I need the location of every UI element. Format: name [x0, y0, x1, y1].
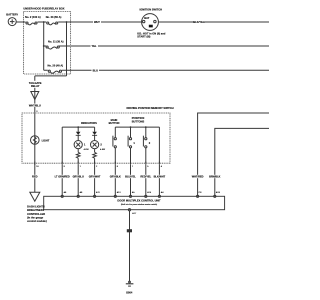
svg-text:IG1: HOT in ON (II) and: IG1: HOT in ON (II) and — [137, 31, 166, 35]
svg-text:G504: G504 — [126, 290, 133, 294]
svg-text:RED/YEL: RED/YEL — [140, 176, 151, 179]
svg-text:RELAY: RELAY — [31, 84, 40, 88]
svg-text:DASH LIGHTS: DASH LIGHTS — [27, 204, 45, 208]
svg-text:START (III): START (III) — [137, 35, 150, 39]
svg-text:DRIVING POSITION MEMORY SWITCH: DRIVING POSITION MEMORY SWITCH — [127, 106, 174, 110]
svg-text:No. 20 (40 A): No. 20 (40 A) — [48, 64, 64, 68]
svg-text:GRY/WHT: GRY/WHT — [89, 176, 101, 179]
svg-text:BUTTONS: BUTTONS — [132, 119, 145, 123]
svg-text:No. 11 (30 A): No. 11 (30 A) — [48, 39, 64, 43]
svg-text:(In the gauge: (In the gauge — [27, 216, 44, 220]
svg-text:BLK/WHT: BLK/WHT — [154, 176, 166, 179]
svg-text:RED: RED — [32, 175, 38, 179]
svg-text:UNDER-HOOD FUSE/RELAY BOX: UNDER-HOOD FUSE/RELAY BOX — [23, 6, 64, 10]
svg-text:LT GRN/RED: LT GRN/RED — [55, 176, 70, 179]
svg-text:BLU: BLU — [93, 68, 98, 72]
svg-text:DOOR MULTIPLEX CONTROL UNIT: DOOR MULTIPLEX CONTROL UNIT — [117, 198, 161, 202]
svg-text:BRN/BLK: BRN/BLK — [209, 176, 220, 179]
svg-text:BLK/YEL: BLK/YEL — [193, 20, 205, 24]
svg-text:YEL: YEL — [91, 44, 96, 48]
svg-text:BUTTON: BUTTON — [109, 121, 120, 125]
svg-text:No. 23 (50 A): No. 23 (50 A) — [46, 15, 62, 19]
svg-text:LIGHT: LIGHT — [42, 138, 50, 142]
svg-text:(Built into the power window m: (Built into the power window master swit… — [121, 203, 158, 206]
svg-text:CONTROLLER: CONTROLLER — [27, 212, 45, 216]
svg-text:BAT: BAT — [144, 16, 150, 20]
svg-text:control module): control module) — [27, 219, 47, 223]
svg-text:IGNITION SWITCH: IGNITION SWITCH — [140, 8, 163, 12]
svg-text:WHT/BLU: WHT/BLU — [29, 104, 41, 108]
svg-text:BRIGHTNESS: BRIGHTNESS — [27, 208, 44, 212]
svg-text:WHT/RED: WHT/RED — [192, 176, 204, 179]
svg-text:BLU/YEL: BLU/YEL — [125, 176, 136, 179]
svg-text:GRY/BLU: GRY/BLU — [73, 176, 84, 179]
svg-text:GRY/BLK: GRY/BLK — [110, 176, 121, 179]
svg-text:No. 2 (100 A): No. 2 (100 A) — [25, 15, 41, 19]
svg-text:INDICATORS: INDICATORS — [81, 121, 97, 125]
svg-text:WHT: WHT — [94, 20, 100, 24]
svg-text:BATTERY: BATTERY — [6, 12, 18, 16]
